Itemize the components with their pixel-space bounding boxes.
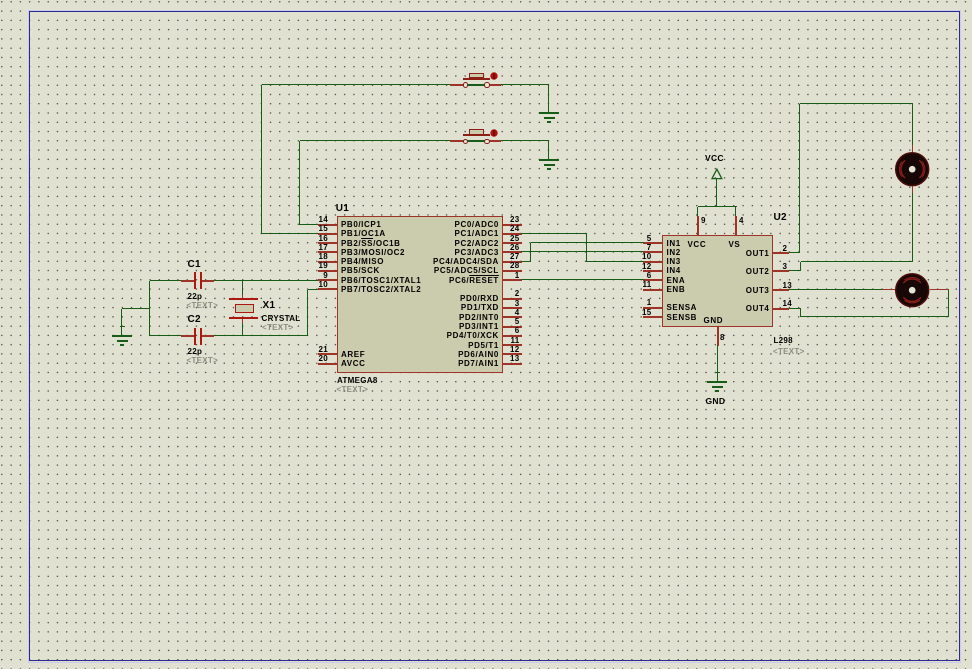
wire PC6 to ENA [521,279,644,280]
U1 pin 17 (PB3/MOSI/OC2) [318,251,337,253]
U1 pin 19 (PB5/SCK) [318,270,337,272]
U1 pin 28 (PC5/ADC5/SCL) [503,270,522,272]
U2 pin 2 (OUT1) [773,252,789,254]
U1 pin 5 (PD3/INT1) [503,326,522,328]
wire PC4 to IN1 (seg 3) [531,242,644,243]
wire button2 right [501,140,549,141]
U2 pin 8 (GND) [717,327,719,346]
value label L298 [774,335,793,346]
wire PC1 to IN3 (seg 3) [587,261,644,262]
motor M2 (DC motor) [894,272,930,308]
value label 22p [188,291,203,302]
U2 pin 12 (IN4) [643,270,662,272]
U1 pin 18 (PB4/MISO) [318,261,337,263]
U2 pin 7 (IN2) [643,251,662,253]
crystal X1 [242,295,243,299]
wire VCC to pin 9 [697,207,698,216]
wire into U1 pin 15 [262,233,318,234]
wire left vertical [149,281,150,336]
U1 pin 23 (PC0/ADC0) [503,224,522,226]
U2 pin 13 (OUT3) [773,289,789,291]
U1 pin 13 (PD7/AIN1) [503,363,522,365]
property label <TEXT> [262,322,294,333]
value label ATMEGA8 [337,375,378,386]
U2 pin 4 (VS) [735,216,737,235]
wire OUT1 top (seg 3) [800,103,913,104]
U1 pin 6 (PD4/T0/XCK) [503,335,522,337]
motor2 right pin [930,289,949,290]
designator C1 [188,258,201,271]
value label CRYSTAL [262,313,301,324]
U2 pin 3 (OUT2) [773,270,789,272]
U1 pin 12 (PD6/AIN0) [503,353,522,355]
U2 pin 14 (OUT4) [773,308,789,310]
motor M1 (DC motor) [894,151,930,187]
U1 pin 1 (PC6/RESET) [503,279,522,281]
wire OUT1 (seg 1) [789,252,800,253]
ground (button 2) [539,159,559,161]
wire button2 down to PB0 [299,141,300,225]
wire tee down to crystal top [242,281,243,295]
U1 pin 16 (PB2/SS/OC1B) [318,242,337,244]
U2 pin 6 (ENA) [643,279,662,281]
wire OUT3 stub ext [773,289,789,290]
U1 pin 21 (AREF) [318,353,337,355]
U1 pin 4 (PD2/INT0) [503,316,522,318]
wire U2 pin8 to ground [717,345,718,382]
wire crystal bottom to bottom rail [242,323,243,336]
property label <TEXT> [337,384,369,395]
U1 pin 9 (PB6/TOSC1/XTAL1) [318,279,337,281]
wire motor2 to OUT4 (seg 2) [801,316,949,317]
designator U2 [774,211,787,224]
wire into U1 pin 14 [300,224,318,225]
wire left vertical to C2 [150,335,181,336]
wire PC4 to IN1 (seg 1) [521,261,531,262]
U1 pin 15 (PB1/OC1A) [318,233,337,235]
U2 pin 11 (ENB) [643,289,662,291]
push button (to PB1) [463,84,490,86]
property label <TEXT> [187,300,219,311]
designator X1 [263,299,276,312]
wire C1 to U1 pin 9 (XTAL1) [214,280,318,281]
U1 pin 25 (PC2/ADC2) [503,242,522,244]
U1 pin 26 (PC3/ADC3) [503,251,522,253]
IC U1 body (ATMEGA8) [337,216,504,373]
IC U2 body (L298) [662,235,773,327]
wire OUT1 up (seg 2) [799,104,800,253]
wire button1 right [501,84,549,85]
motor1 top pin [912,145,913,152]
motor1 bottom pin [912,186,913,193]
U2 pin 1 (SENSA) [643,307,662,309]
U2 pin 15 (SENSB) [643,316,662,318]
U2 pin 5 (IN1) [643,242,662,244]
wire PC1 to IN3 (seg 1) [521,233,587,234]
wire motor1 to OUT2 (seg 2) [801,261,913,262]
wire motor2 to OUT4 (seg 3) [800,309,801,317]
wire OUT3 (seg 1) [789,289,882,290]
wire motor1 to OUT2 (seg 3) [800,262,801,271]
wire ground tap [122,308,150,309]
wire motor2 to OUT4 (seg 1) [948,290,949,317]
wire riser up to pin 10 row [307,290,308,336]
U1 pin 3 (PD1/TXD) [503,307,522,309]
designator C2 [188,313,201,326]
U2 pin 10 (IN3) [643,261,662,263]
ground (button 1) [539,112,559,114]
wire C2 to pin10 riser [214,335,308,336]
value label 22p [188,346,203,357]
label GND [706,395,726,407]
U2 pin 9 (VCC) [697,216,699,235]
wire motor1 to OUT2 (seg 1) [912,193,913,262]
wire motor2 to OUT4 (seg 4) [789,308,801,309]
wire left vertical to C1 [150,280,181,281]
wire button1 down to PB1 [261,85,262,234]
power VCC terminal [705,152,724,164]
wire motor1 to OUT2 (seg 4) [789,270,801,271]
wire VCC rail horizontal [698,206,737,207]
wire PC3 to IN2 [521,251,644,252]
U1 pin 14 (PB0/ICP1) [318,224,337,226]
wire OUT1 stub ext [773,252,789,253]
motor2 left pin [882,289,895,290]
push button (to PB0) [463,140,490,142]
U1 pin 10 (PB7/TOSC2/XTAL2) [318,288,337,290]
wire button2 to ground [548,141,549,159]
designator U1 [336,202,349,215]
wire down to motor1 (seg 4) [912,104,913,145]
property label <TEXT> [187,355,219,366]
wire VCC to pin 4 [735,207,736,216]
U1 pin 27 (PC4/ADC4/SDA) [503,261,522,263]
ground (below U2) [707,381,727,383]
capacitor C2 [181,335,194,337]
capacitor C1 [181,280,194,282]
wire PC1 to IN3 (seg 2) [586,234,587,262]
wire PC4 to IN1 (seg 2) [530,243,531,262]
wire down to ground [121,309,122,336]
U1 pin 24 (PC1/ADC1) [503,233,522,235]
U1 pin 20 (AVCC) [318,363,337,365]
wire VCC stem [716,178,717,207]
property label <TEXT> [773,346,805,357]
U1 pin 2 (PD0/RXD) [503,298,522,300]
wire into U1 pin 10 (XTAL2) [308,289,318,290]
wire button2 left [300,140,450,141]
wire button1 left [262,84,450,85]
U1 pin 11 (PD5/T1) [503,344,522,346]
ground (crystal) [112,335,132,337]
wire button1 to ground [548,85,549,112]
